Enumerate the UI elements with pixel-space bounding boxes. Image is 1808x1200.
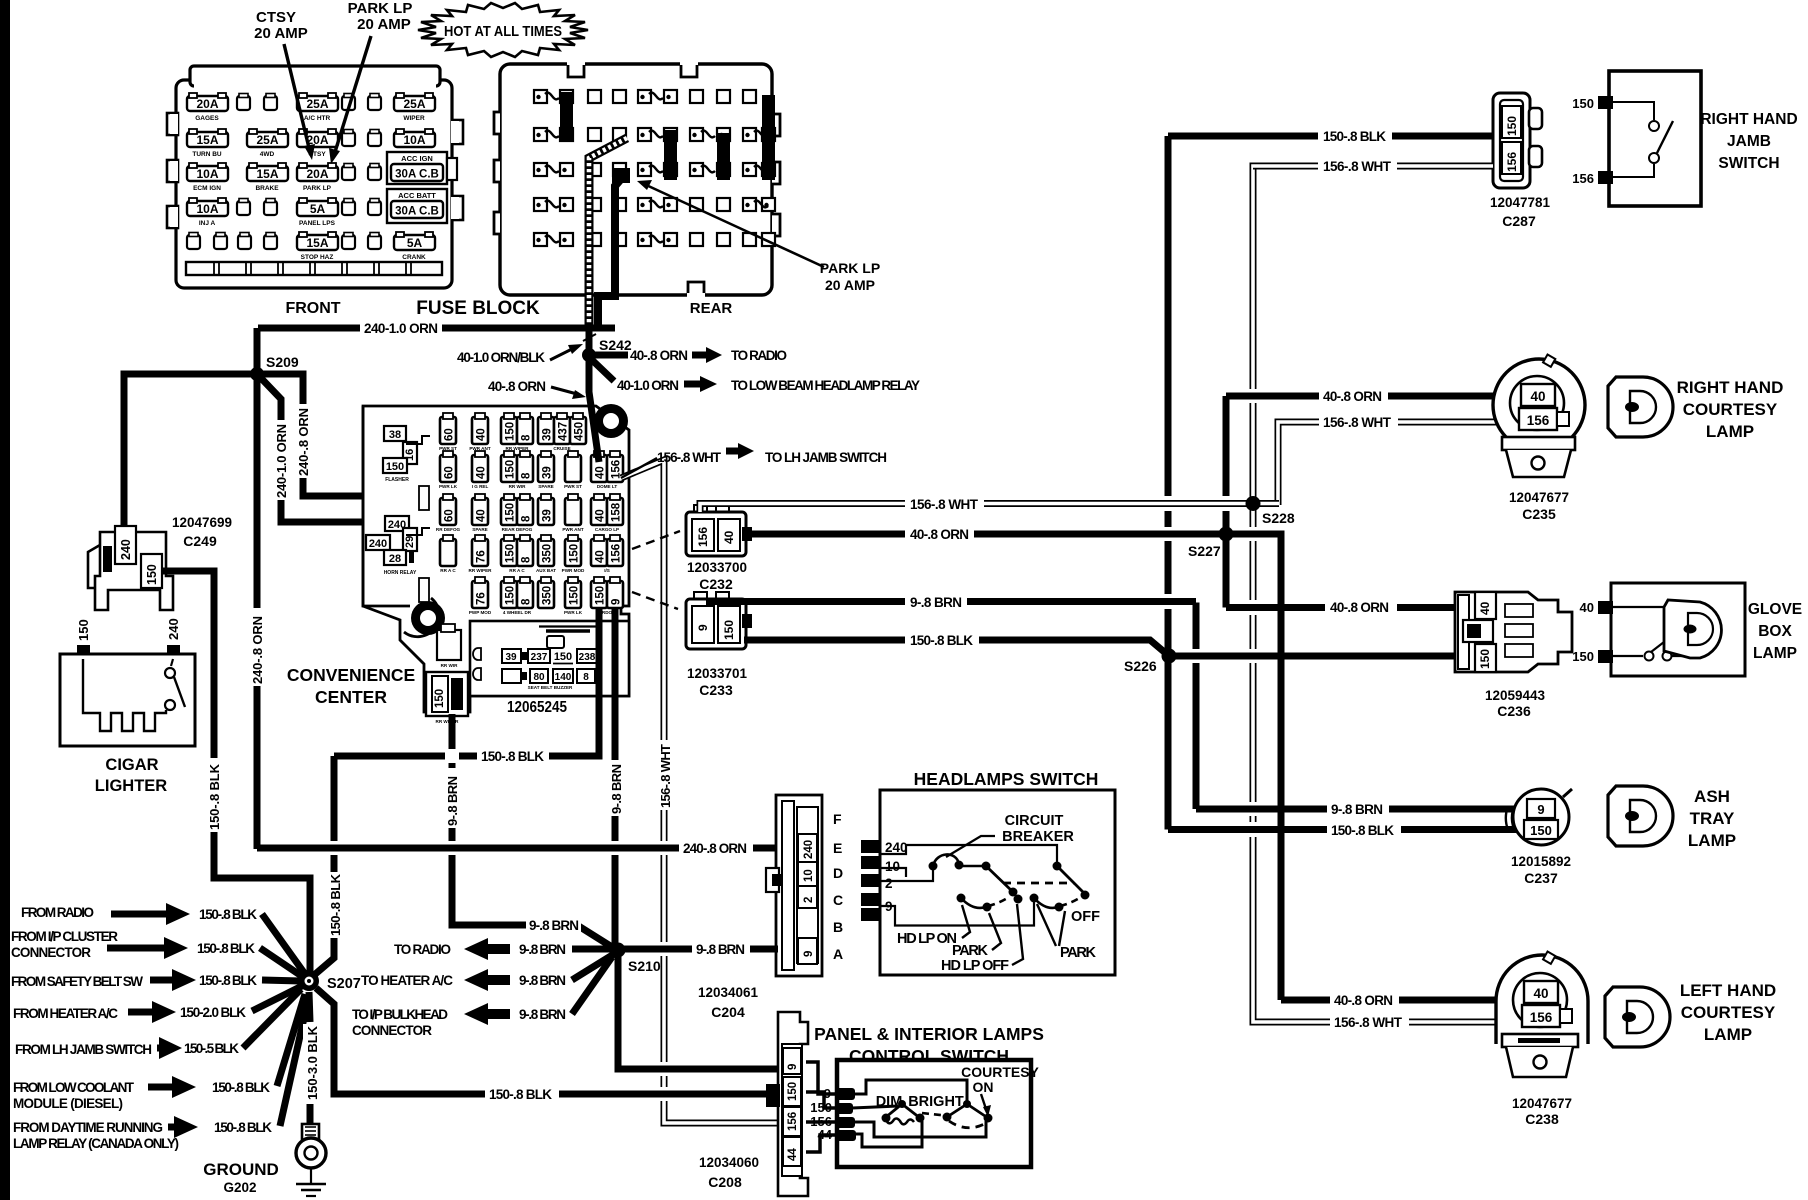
svg-text:FROM RADIO: FROM RADIO bbox=[21, 905, 94, 920]
svg-text:60: 60 bbox=[444, 428, 456, 441]
svg-text:10A: 10A bbox=[403, 133, 425, 147]
svg-text:PARK LP: PARK LP bbox=[303, 185, 332, 192]
svg-text:450: 450 bbox=[574, 422, 586, 441]
svg-text:4 WHEEL DR: 4 WHEEL DR bbox=[503, 610, 532, 615]
svg-text:SPARE: SPARE bbox=[538, 484, 554, 489]
svg-text:150: 150 bbox=[434, 689, 446, 708]
svg-text:S226: S226 bbox=[1124, 658, 1157, 674]
44 wire bbox=[855, 1121, 922, 1147]
svg-text:TO HEATER A/C: TO HEATER A/C bbox=[361, 973, 453, 988]
svg-text:PANEL LPS: PANEL LPS bbox=[299, 220, 336, 227]
ground lug G202 bbox=[296, 1124, 326, 1196]
node S209 bbox=[250, 367, 264, 381]
svg-text:BRIGHT: BRIGHT bbox=[908, 1094, 964, 1110]
svg-text:FLASHER: FLASHER bbox=[385, 477, 409, 483]
svg-text:150: 150 bbox=[1530, 823, 1552, 838]
connector C233 bbox=[694, 592, 707, 601]
switch lever bbox=[1657, 121, 1673, 153]
svg-text:ON: ON bbox=[973, 1079, 994, 1095]
svg-text:9: 9 bbox=[803, 951, 815, 957]
wire S210 down to C208 bbox=[618, 950, 778, 1069]
svg-text:CENTER: CENTER bbox=[315, 687, 387, 707]
left contact arcs bbox=[957, 894, 966, 903]
svg-text:9-.8 BRN: 9-.8 BRN bbox=[519, 1007, 566, 1022]
svg-text:20A: 20A bbox=[306, 167, 328, 181]
svg-text:12047677: 12047677 bbox=[1509, 490, 1569, 505]
svg-text:C287: C287 bbox=[1502, 213, 1536, 229]
svg-text:PWR MOD: PWR MOD bbox=[562, 568, 585, 573]
connector C204 bbox=[766, 795, 843, 976]
svg-text:15A: 15A bbox=[256, 167, 278, 181]
svg-text:9-.8 BRN: 9-.8 BRN bbox=[445, 776, 460, 826]
svg-text:40: 40 bbox=[476, 428, 488, 441]
wire 40-.8 ORN to C238 bbox=[1281, 997, 1526, 1004]
svg-text:150: 150 bbox=[722, 620, 736, 640]
svg-text:LAMP: LAMP bbox=[1688, 831, 1736, 850]
seat belt buzzer panel bbox=[470, 621, 629, 696]
conv center plugs row 3 bbox=[440, 494, 456, 525]
levers bbox=[1053, 862, 1062, 871]
conv center plugs row 4 bbox=[440, 535, 456, 566]
horn relay bbox=[385, 516, 409, 531]
svg-text:10: 10 bbox=[803, 869, 815, 882]
wire 40-.8 ORN into convenience center (dome fuse) bbox=[589, 360, 599, 462]
svg-text:PWR ANT: PWR ANT bbox=[562, 527, 583, 532]
svg-text:150-.8 BLK: 150-.8 BLK bbox=[199, 973, 257, 988]
svg-text:156: 156 bbox=[696, 527, 710, 547]
svg-text:350: 350 bbox=[542, 586, 554, 605]
svg-text:LAMP: LAMP bbox=[1704, 1025, 1752, 1044]
svg-text:HD LP OFF: HD LP OFF bbox=[941, 958, 1009, 974]
svg-text:PWP MOD: PWP MOD bbox=[469, 610, 492, 615]
svg-text:C237: C237 bbox=[1524, 870, 1558, 886]
svg-text:PWR LK: PWR LK bbox=[564, 610, 583, 615]
svg-text:150: 150 bbox=[386, 461, 404, 473]
wire 150-.8 BLK S226 to glove box bbox=[1169, 653, 1476, 660]
svg-text:150-.8 BLK: 150-.8 BLK bbox=[328, 873, 343, 936]
svg-text:240-.8 ORN: 240-.8 ORN bbox=[683, 841, 747, 856]
svg-text:C238: C238 bbox=[1525, 1111, 1559, 1127]
svg-text:C: C bbox=[833, 892, 843, 908]
svg-text:40-.8 ORN: 40-.8 ORN bbox=[630, 348, 688, 363]
svg-text:12065245: 12065245 bbox=[507, 699, 567, 716]
svg-text:C204: C204 bbox=[711, 1004, 745, 1020]
svg-text:437: 437 bbox=[558, 422, 570, 441]
wire 9-.8 BRN vertical bbox=[1193, 603, 1200, 810]
svg-text:44: 44 bbox=[787, 1148, 799, 1161]
svg-text:150-.8 BLK: 150-.8 BLK bbox=[214, 1120, 272, 1135]
240 feed rail bbox=[881, 845, 1057, 864]
svg-text:12047699: 12047699 bbox=[172, 515, 232, 530]
svg-text:39: 39 bbox=[542, 466, 554, 479]
wire 150-.8 BLK S207 to C208 bbox=[316, 988, 766, 1094]
svg-text:150-.8 BLK: 150-.8 BLK bbox=[489, 1087, 552, 1102]
svg-text:I G REL: I G REL bbox=[472, 484, 489, 489]
svg-text:8: 8 bbox=[521, 472, 533, 479]
svg-text:S210: S210 bbox=[628, 958, 661, 974]
svg-text:CIRCUIT: CIRCUIT bbox=[1005, 813, 1064, 829]
svg-text:40: 40 bbox=[1580, 600, 1594, 615]
svg-text:40-.8 ORN: 40-.8 ORN bbox=[910, 527, 969, 542]
node S210 bbox=[611, 943, 626, 958]
wire 240-1.0 ORN from fuse block bbox=[258, 325, 615, 332]
svg-text:150: 150 bbox=[505, 544, 517, 563]
svg-text:39: 39 bbox=[542, 428, 554, 441]
wire 156-.8 WHT from C232 bbox=[700, 504, 1279, 513]
svg-text:PARK: PARK bbox=[1060, 945, 1097, 961]
svg-text:FROM LOW COOLANT: FROM LOW COOLANT bbox=[13, 1080, 135, 1095]
svg-text:ASH: ASH bbox=[1694, 787, 1730, 806]
svg-text:CONNECTOR: CONNECTOR bbox=[352, 1023, 432, 1038]
svg-text:FROM LH JAMB SWITCH: FROM LH JAMB SWITCH bbox=[15, 1042, 152, 1057]
svg-text:40-.8 ORN: 40-.8 ORN bbox=[488, 379, 546, 394]
svg-text:150: 150 bbox=[145, 564, 159, 585]
label 240-.8 ORN (long vertical) bbox=[249, 608, 265, 686]
mounting hole bottom left bbox=[404, 598, 439, 637]
svg-text:40: 40 bbox=[595, 550, 607, 563]
node S207 bbox=[299, 971, 319, 991]
svg-text:COURTESY: COURTESY bbox=[961, 1064, 1039, 1080]
svg-text:C235: C235 bbox=[1522, 506, 1556, 522]
svg-text:SEAT BELT BUZZER: SEAT BELT BUZZER bbox=[528, 685, 573, 690]
wire 40-.8 ORN to C235 bbox=[1226, 393, 1523, 400]
wire 40-.8 ORN vertical (S227) bbox=[1223, 396, 1230, 608]
fuse 5A CRANK bbox=[394, 232, 435, 250]
LH courtesy lamp symbol bbox=[1605, 981, 1776, 1047]
svg-text:PARK: PARK bbox=[952, 943, 989, 959]
fuse 25A A/C HTR bbox=[297, 93, 338, 111]
svg-text:150: 150 bbox=[505, 422, 517, 441]
svg-text:158: 158 bbox=[611, 502, 623, 522]
wire 156-.8 WHT main vertical run bbox=[1253, 166, 1497, 1022]
svg-text:FUSE BLOCK: FUSE BLOCK bbox=[416, 298, 540, 319]
lamp socket C237 (ash tray) bbox=[1506, 789, 1572, 886]
svg-text:150-3.0 BLK: 150-3.0 BLK bbox=[305, 1025, 320, 1100]
conv center plugs row 1 bbox=[440, 413, 456, 444]
svg-text:RR DEFOG: RR DEFOG bbox=[436, 527, 461, 532]
wire 240-1.0 ORN branch to horn relay bbox=[259, 376, 389, 522]
fuse block rear housing bbox=[500, 64, 772, 295]
connector C287 bbox=[1493, 93, 1530, 188]
svg-text:INJ A: INJ A bbox=[199, 220, 216, 227]
connector C208 bbox=[766, 1012, 808, 1196]
svg-text:RR WIR: RR WIR bbox=[441, 663, 459, 668]
svg-text:156-.8 WHT: 156-.8 WHT bbox=[910, 497, 979, 512]
svg-text:WIPER: WIPER bbox=[403, 115, 425, 122]
circuit breaker bbox=[929, 862, 938, 871]
svg-text:15A: 15A bbox=[196, 133, 218, 147]
svg-text:HEADLAMPS SWITCH: HEADLAMPS SWITCH bbox=[914, 769, 1099, 789]
svg-text:TO LOW BEAM HEADLAMP RELAY: TO LOW BEAM HEADLAMP RELAY bbox=[731, 378, 920, 393]
svg-text:10A: 10A bbox=[196, 167, 218, 181]
svg-text:12034060: 12034060 bbox=[699, 1155, 759, 1170]
crossing gaps bbox=[1161, 389, 1288, 837]
svg-text:150: 150 bbox=[76, 619, 91, 641]
wire 9-.8 BRN to ash tray bbox=[1196, 806, 1526, 813]
svg-text:20 AMP: 20 AMP bbox=[825, 277, 875, 293]
10 wire bbox=[881, 868, 906, 877]
svg-text:150: 150 bbox=[1572, 649, 1594, 664]
svg-text:150-.8 BLK: 150-.8 BLK bbox=[1323, 129, 1386, 144]
svg-text:COURTESY: COURTESY bbox=[1683, 400, 1778, 419]
wire 9-.8 BRN S210 to C204 bbox=[618, 946, 778, 953]
svg-text:9: 9 bbox=[696, 624, 710, 631]
svg-text:39: 39 bbox=[542, 509, 554, 522]
svg-text:S209: S209 bbox=[266, 354, 299, 370]
svg-text:150: 150 bbox=[1478, 649, 1492, 669]
svg-text:150-.8 BLK: 150-.8 BLK bbox=[199, 907, 257, 922]
node S242 bbox=[582, 348, 596, 362]
fuse 25A WIPER bbox=[394, 93, 435, 111]
stub wires C208 to switch bbox=[806, 1062, 835, 1094]
svg-text:150: 150 bbox=[505, 460, 517, 479]
svg-text:156: 156 bbox=[1572, 171, 1594, 186]
svg-text:C249: C249 bbox=[183, 533, 217, 549]
rear terminals grid bbox=[534, 90, 547, 103]
svg-text:25A: 25A bbox=[306, 97, 328, 111]
svg-text:8: 8 bbox=[521, 556, 533, 563]
svg-text:150-.8 BLK: 150-.8 BLK bbox=[197, 941, 255, 956]
svg-text:5A: 5A bbox=[310, 202, 326, 216]
svg-text:LEFT HAND: LEFT HAND bbox=[1680, 981, 1776, 1000]
svg-text:8: 8 bbox=[583, 672, 589, 683]
svg-text:238: 238 bbox=[579, 652, 596, 663]
wire 156-.8 WHT to C235 bbox=[1319, 413, 1398, 429]
lamp symbol RH courtesy bbox=[1608, 377, 1783, 441]
right hand jamb switch box bbox=[1609, 71, 1701, 206]
dashed leader to C233 bbox=[632, 592, 678, 609]
fuse 25A 4WD bbox=[247, 129, 288, 147]
svg-text:240-.8 ORN: 240-.8 ORN bbox=[250, 616, 265, 684]
svg-text:MODULE (DIESEL): MODULE (DIESEL) bbox=[13, 1096, 123, 1111]
svg-text:150-.8 BLK: 150-.8 BLK bbox=[212, 1080, 270, 1095]
svg-text:40-.8 ORN: 40-.8 ORN bbox=[1334, 993, 1393, 1008]
svg-text:BREAKER: BREAKER bbox=[1002, 829, 1074, 845]
node S227 bbox=[1219, 527, 1234, 542]
wire 156-.8 WHT vertical from conv center bbox=[621, 460, 780, 1123]
svg-text:150: 150 bbox=[505, 503, 517, 522]
svg-text:9-.8 BRN: 9-.8 BRN bbox=[910, 595, 962, 610]
conv center plugs row 5 bbox=[472, 577, 488, 608]
svg-text:150-2.0 BLK: 150-2.0 BLK bbox=[180, 1005, 246, 1020]
svg-text:GROUND: GROUND bbox=[203, 1160, 279, 1179]
fuse 20A GAGES bbox=[187, 93, 228, 111]
svg-text:156: 156 bbox=[787, 1112, 799, 1131]
svg-text:40: 40 bbox=[1530, 389, 1545, 404]
ash tray lamp symbol bbox=[1608, 786, 1736, 850]
svg-text:FROM HEATER A/C: FROM HEATER A/C bbox=[13, 1006, 118, 1021]
svg-text:156: 156 bbox=[1527, 413, 1550, 428]
headlamps switch box bbox=[880, 790, 1115, 975]
svg-text:240: 240 bbox=[166, 618, 181, 640]
svg-text:76: 76 bbox=[476, 592, 488, 605]
svg-text:12033700: 12033700 bbox=[687, 560, 747, 575]
flasher relay bbox=[384, 426, 406, 441]
svg-text:C236: C236 bbox=[1497, 703, 1531, 719]
svg-text:38: 38 bbox=[389, 429, 401, 441]
svg-text:S228: S228 bbox=[1262, 510, 1295, 526]
fuse 10A INJ A bbox=[187, 198, 228, 216]
svg-text:156: 156 bbox=[1505, 152, 1519, 172]
dashed leader to C232 bbox=[632, 531, 680, 549]
fuse 15A BRAKE bbox=[247, 163, 288, 181]
fuse 20A CTSY bbox=[297, 129, 338, 147]
wire 40-1.0 ORN to low beam headlamp relay bbox=[591, 359, 614, 381]
wire 150-.8 BLK from C249 bbox=[162, 571, 214, 758]
switch internals bbox=[861, 813, 1100, 974]
svg-text:240: 240 bbox=[803, 840, 815, 859]
svg-text:240: 240 bbox=[119, 539, 133, 560]
wire 40-.8 ORN from C232 label bbox=[905, 525, 974, 541]
wire 150-.8 BLK from conv center bbox=[334, 608, 599, 756]
right contact arcs bbox=[1030, 894, 1039, 903]
wire 40-.8 ORN to glove box bbox=[1226, 604, 1476, 611]
svg-text:OFF: OFF bbox=[1071, 909, 1100, 925]
svg-text:12047677: 12047677 bbox=[1512, 1096, 1572, 1111]
rear fuse bars bbox=[560, 92, 573, 142]
svg-text:150-.8 BLK: 150-.8 BLK bbox=[1331, 823, 1394, 838]
svg-text:DOME LT: DOME LT bbox=[597, 484, 618, 489]
svg-text:HOT AT ALL TIMES: HOT AT ALL TIMES bbox=[444, 23, 562, 40]
svg-text:40: 40 bbox=[1478, 601, 1492, 615]
wire 156-.8 WHT elbow to RH courtesy bbox=[1278, 422, 1521, 505]
svg-text:LAMP RELAY (CANADA ONLY): LAMP RELAY (CANADA ONLY) bbox=[13, 1136, 179, 1151]
svg-text:240-1.0 ORN: 240-1.0 ORN bbox=[364, 321, 438, 336]
svg-text:10: 10 bbox=[885, 859, 900, 874]
svg-text:40-.8 ORN: 40-.8 ORN bbox=[1323, 389, 1382, 404]
wire 9-.8 BRN from lower connector to S210 bbox=[452, 714, 612, 947]
svg-text:BRAKE: BRAKE bbox=[255, 185, 279, 192]
svg-text:25A: 25A bbox=[403, 97, 425, 111]
HOT AT ALL TIMES balloon bbox=[418, 3, 588, 57]
svg-text:29: 29 bbox=[404, 536, 416, 548]
wire 40-.8 ORN to radio bbox=[595, 352, 628, 359]
svg-text:LAMP: LAMP bbox=[1706, 422, 1754, 441]
fuse 15A STOP HAZ bbox=[297, 232, 338, 250]
svg-text:RR WIPER: RR WIPER bbox=[469, 568, 493, 573]
svg-text:ACC IGN: ACC IGN bbox=[401, 154, 433, 163]
svg-text:TO RADIO: TO RADIO bbox=[394, 942, 451, 957]
svg-text:CRANK: CRANK bbox=[402, 254, 426, 261]
wire 240-.8 ORN branch bbox=[257, 374, 394, 519]
svg-text:TURN BU: TURN BU bbox=[192, 151, 222, 158]
svg-text:ECM IGN: ECM IGN bbox=[193, 185, 221, 192]
svg-text:AUX BAT: AUX BAT bbox=[536, 568, 556, 573]
svg-text:B: B bbox=[833, 919, 843, 935]
svg-text:PWR ST: PWR ST bbox=[564, 484, 582, 489]
svg-text:8: 8 bbox=[521, 515, 533, 522]
svg-text:40-1.0 ORN/BLK: 40-1.0 ORN/BLK bbox=[457, 350, 545, 365]
wire 150-.8 BLK vertical (jamb to ash tray) bbox=[1165, 136, 1172, 830]
svg-text:156-.8 WHT: 156-.8 WHT bbox=[658, 744, 673, 808]
svg-text:I/S: I/S bbox=[604, 568, 610, 573]
svg-text:C232: C232 bbox=[699, 576, 733, 592]
svg-text:COURTESY: COURTESY bbox=[1681, 1003, 1776, 1022]
terminal strip bbox=[186, 262, 442, 275]
svg-text:76: 76 bbox=[476, 550, 488, 563]
svg-text:REAR DEFOG: REAR DEFOG bbox=[502, 527, 533, 532]
lamp socket C238 (LH courtesy) bbox=[1496, 952, 1588, 1127]
lamp socket C235 bbox=[1493, 355, 1585, 522]
svg-text:240-1.0 ORN: 240-1.0 ORN bbox=[274, 424, 289, 498]
svg-text:RR WIR: RR WIR bbox=[509, 484, 527, 489]
svg-text:RIGHT HAND: RIGHT HAND bbox=[1677, 378, 1784, 397]
heating element bbox=[83, 659, 166, 731]
wire 156-.8 WHT to LH jamb switch bbox=[621, 458, 657, 478]
conv center plugs row 2 bbox=[440, 451, 456, 482]
svg-text:150-.5 BLK: 150-.5 BLK bbox=[184, 1041, 239, 1056]
svg-text:9-.8 BRN: 9-.8 BRN bbox=[519, 973, 566, 988]
node S226 bbox=[1162, 649, 1177, 664]
wire S242 stem bbox=[586, 328, 593, 360]
svg-text:40-1.0 ORN: 40-1.0 ORN bbox=[617, 378, 679, 393]
connector C236 bbox=[1455, 592, 1572, 719]
svg-text:150: 150 bbox=[569, 544, 581, 563]
wire 150-.8 BLK to C287 bbox=[1168, 133, 1493, 140]
svg-text:C208: C208 bbox=[708, 1174, 742, 1190]
svg-text:FROM SAFETY BELT SW: FROM SAFETY BELT SW bbox=[11, 974, 143, 989]
svg-text:9: 9 bbox=[787, 1064, 799, 1070]
svg-text:2: 2 bbox=[885, 876, 893, 891]
svg-text:HORN RELAY: HORN RELAY bbox=[384, 570, 417, 576]
svg-text:9-.8 BRN: 9-.8 BRN bbox=[696, 942, 745, 957]
svg-text:REAR: REAR bbox=[690, 300, 733, 317]
svg-text:60: 60 bbox=[444, 466, 456, 479]
wire down to S209 and on down to 240-.8 ORN bbox=[254, 328, 261, 849]
convenience center housing bbox=[363, 406, 629, 712]
wire 9-.8 BRN from conv center to S210 bbox=[612, 608, 619, 947]
svg-text:150: 150 bbox=[595, 586, 607, 605]
svg-text:SWITCH: SWITCH bbox=[1718, 155, 1779, 172]
svg-text:150: 150 bbox=[505, 586, 517, 605]
svg-text:TO RADIO: TO RADIO bbox=[731, 348, 787, 363]
svg-text:RR WIPER: RR WIPER bbox=[436, 719, 460, 724]
svg-text:STOP HAZ: STOP HAZ bbox=[301, 254, 334, 261]
svg-text:9-.8 BRN: 9-.8 BRN bbox=[529, 918, 579, 933]
svg-text:240: 240 bbox=[885, 840, 908, 855]
svg-text:PWR LK: PWR LK bbox=[439, 484, 458, 489]
svg-text:40-.8 ORN: 40-.8 ORN bbox=[1330, 600, 1389, 615]
svg-text:15A: 15A bbox=[306, 236, 328, 250]
wire 156-.8 WHT to C287 bbox=[1253, 163, 1493, 170]
svg-text:SPARE: SPARE bbox=[472, 527, 488, 532]
svg-text:5A: 5A bbox=[407, 236, 423, 250]
svg-text:TO I/P BULKHEAD: TO I/P BULKHEAD bbox=[352, 1007, 448, 1022]
svg-text:8: 8 bbox=[521, 434, 533, 441]
svg-text:S227: S227 bbox=[1188, 543, 1221, 559]
svg-text:20 AMP: 20 AMP bbox=[357, 16, 411, 33]
glove box lamp bbox=[1572, 583, 1802, 676]
fuse block front housing bbox=[176, 80, 452, 288]
fuse 20A PARK LP bbox=[297, 163, 338, 181]
svg-text:CTSY: CTSY bbox=[256, 9, 296, 26]
svg-text:GAGES: GAGES bbox=[195, 115, 219, 122]
switch box bbox=[837, 1060, 1031, 1167]
svg-text:12015892: 12015892 bbox=[1511, 854, 1571, 869]
svg-text:A: A bbox=[833, 946, 843, 962]
svg-text:E: E bbox=[833, 840, 842, 856]
svg-text:150: 150 bbox=[1572, 96, 1594, 111]
svg-text:30A C.B: 30A C.B bbox=[395, 206, 439, 218]
svg-text:HD LP ON: HD LP ON bbox=[897, 931, 957, 947]
connector C249 bbox=[95, 532, 173, 610]
svg-text:156-.8 WHT: 156-.8 WHT bbox=[1334, 1015, 1403, 1030]
svg-text:156-.8 WHT: 156-.8 WHT bbox=[657, 450, 722, 465]
svg-text:LAMP: LAMP bbox=[1753, 645, 1797, 662]
svg-text:40: 40 bbox=[595, 509, 607, 522]
wire 9-.8 BRN from C233 bbox=[706, 598, 1196, 605]
svg-text:GLOVE: GLOVE bbox=[1748, 601, 1802, 618]
